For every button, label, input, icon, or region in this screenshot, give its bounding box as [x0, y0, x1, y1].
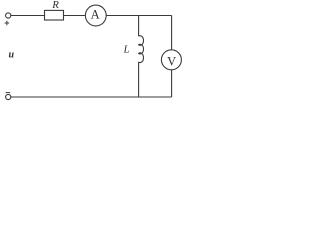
voltmeter V [161, 50, 181, 70]
wire middle vertical upper [138, 16, 140, 37]
resistor R [45, 10, 64, 20]
wire top-left [11, 15, 45, 17]
wire right vertical upper [171, 16, 173, 50]
ammeter A [85, 5, 106, 26]
wire ammeter to corner [106, 15, 171, 17]
plus sign [5, 21, 10, 26]
svg-text:V: V [167, 55, 176, 69]
minus sign [6, 92, 11, 94]
wire resistor to ammeter [64, 15, 86, 17]
wire middle vertical lower [138, 62, 140, 97]
svg-text:L: L [123, 45, 130, 56]
terminal top-left [6, 13, 11, 18]
inductor L [139, 36, 144, 63]
wire right vertical lower [171, 70, 173, 97]
svg-text:A: A [91, 7, 100, 21]
svg-text:u: u [9, 50, 15, 61]
wire bottom [11, 96, 172, 98]
terminal bottom-left [6, 94, 11, 99]
svg-text:R: R [51, 0, 59, 11]
